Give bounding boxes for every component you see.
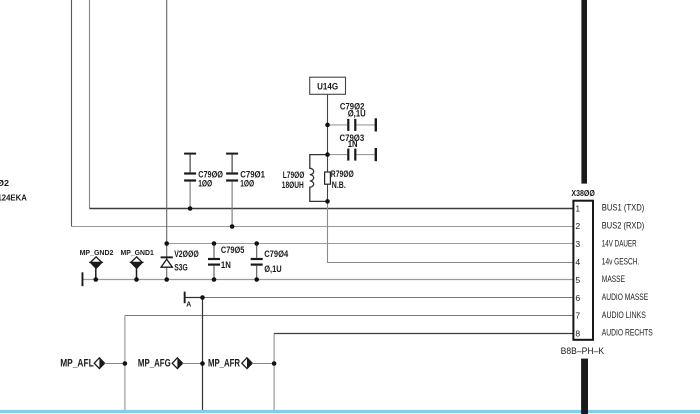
- svg-text:L79ØØ: L79ØØ: [283, 170, 305, 180]
- capacitor C7904 0,1U: [251, 244, 263, 280]
- net label BUS2 (RXD): [602, 221, 645, 231]
- svg-text:MP_GND1: MP_GND1: [121, 248, 155, 257]
- svg-text:BUS2 (RXD): BUS2 (RXD): [602, 221, 645, 231]
- svg-text:S3G: S3G: [174, 263, 188, 273]
- svg-text:Ø,1U: Ø,1U: [264, 264, 282, 274]
- wire AUDIO RECHTS vertical x=274: [273, 334, 275, 411]
- terminal node A: [184, 292, 203, 309]
- svg-text:MP_AFG: MP_AFG: [138, 358, 171, 370]
- svg-text:AUDIO LINKS: AUDIO LINKS: [602, 310, 646, 320]
- label C7902: [340, 102, 366, 119]
- svg-text:N.B.: N.B.: [332, 180, 346, 190]
- net label 14v GESCH.: [602, 257, 640, 267]
- net label AUDIO RECHTS: [602, 328, 653, 338]
- svg-text:3: 3: [575, 239, 580, 249]
- wire BUS1 horizontal to pin 1: [90, 208, 573, 210]
- label C7905: [221, 245, 245, 270]
- resistor R7900 N.B.: [325, 172, 331, 184]
- svg-text:14v GESCH.: 14v GESCH.: [602, 257, 640, 267]
- svg-text:MP_AFR: MP_AFR: [208, 358, 240, 370]
- junction dots: [94, 123, 330, 366]
- label C7901: [240, 169, 265, 188]
- wire R7900 bottom to node: [327, 184, 329, 201]
- svg-text:BUS1 (TXD): BUS1 (TXD): [602, 203, 645, 213]
- pin 2: [575, 221, 580, 231]
- svg-text:C79Ø5: C79Ø5: [221, 245, 245, 255]
- net label BUS1 (TXD): [602, 203, 645, 213]
- svg-text:124EKA: 124EKA: [0, 193, 27, 202]
- pin 3: [575, 239, 580, 249]
- svg-text:Ø,1U: Ø,1U: [348, 108, 366, 118]
- svg-text:Ø2: Ø2: [0, 179, 10, 188]
- bus bar thick top: [581, 0, 587, 184]
- cyan highlight line: [0, 410, 700, 413]
- net label AUDIO MASSE: [602, 292, 648, 302]
- label B8B-PH-K: [561, 346, 605, 357]
- svg-text:7: 7: [575, 311, 580, 321]
- capacitor C7901 100: [226, 153, 238, 227]
- svg-text:B8B–PH–K: B8B–PH–K: [561, 346, 605, 357]
- svg-text:1: 1: [575, 203, 580, 213]
- svg-text:R79ØØ: R79ØØ: [331, 169, 354, 179]
- terminal bar C7903: [375, 148, 377, 161]
- svg-text:1N: 1N: [348, 139, 358, 149]
- wire MASSE horizontal to pin 5: [82, 279, 572, 281]
- wire BUS2 horizontal to pin 2: [72, 226, 573, 228]
- wire C7902 branch horizontal: [328, 124, 375, 126]
- net label AUDIO LINKS: [602, 310, 646, 320]
- terminal bar C7902: [375, 118, 377, 131]
- pin 4: [575, 257, 580, 267]
- wire AUDIO MASSE horizontal to pin 6: [185, 297, 573, 299]
- svg-text:1ØØ: 1ØØ: [198, 178, 212, 188]
- wire AUDIO LINKS vertical x=125: [124, 316, 126, 411]
- label 124EKA clipped: [0, 193, 27, 202]
- measuring point MP_AFR: [208, 358, 274, 370]
- svg-text:14V DAUER: 14V DAUER: [602, 238, 637, 248]
- terminal MASSE left: [82, 272, 84, 286]
- pin 6: [575, 293, 580, 303]
- capacitor C7905 1N: [208, 244, 220, 280]
- svg-text:MASSE: MASSE: [602, 274, 625, 284]
- wire 14V DAUER horizontal to pin 3: [167, 243, 573, 245]
- pin 7: [575, 311, 580, 321]
- svg-text:A: A: [186, 302, 191, 309]
- wire 14v GESCH vertical then horizontal to pin 4: [328, 201, 573, 262]
- capacitor C7902 0,1U: [347, 119, 356, 131]
- wire U14G stem down x=327.5: [327, 94, 329, 172]
- capacitor C7903 1N: [347, 149, 356, 161]
- IC box U14G: [310, 77, 346, 94]
- wire vertical x=202.4 from node A to bottom: [202, 298, 204, 411]
- label C7900: [198, 169, 223, 188]
- svg-text:MP_AFL: MP_AFL: [60, 358, 94, 370]
- label 02 clipped: [0, 179, 10, 188]
- svg-text:X38ØØ: X38ØØ: [571, 188, 595, 198]
- net label MASSE: [602, 274, 625, 284]
- wire AUDIO RECHTS horizontal to pin 8: [274, 333, 572, 335]
- measuring point MP_GND1: [121, 248, 155, 280]
- svg-text:MP_GND2: MP_GND2: [80, 248, 114, 257]
- diode V2000 S3G: [161, 256, 173, 267]
- wire C7903 branch horizontal: [328, 154, 375, 156]
- label C7903: [340, 133, 365, 149]
- label L7900: [282, 170, 305, 190]
- capacitor C7900 100: [184, 153, 196, 209]
- wire vertical net BUS2 left: [71, 0, 73, 227]
- svg-text:6: 6: [575, 293, 580, 303]
- pin 5: [575, 275, 580, 285]
- pin 8: [575, 328, 580, 338]
- measuring point MP_GND2: [80, 248, 114, 280]
- wire vertical net BUS1 left: [89, 0, 91, 209]
- bus bar thick bottom: [581, 359, 588, 414]
- net label 14V DAUER: [602, 238, 637, 248]
- measuring point MP_AFL: [60, 358, 125, 370]
- label R7900: [331, 169, 354, 190]
- inductor L7900 180UH: [310, 155, 328, 202]
- svg-text:1ØØ: 1ØØ: [240, 178, 254, 188]
- wire vertical through V2000: [166, 0, 168, 280]
- svg-text:18ØUH: 18ØUH: [282, 180, 304, 190]
- wire AUDIO LINKS horizontal to pin 7: [125, 315, 573, 317]
- label V2000: [174, 249, 199, 273]
- svg-text:AUDIO MASSE: AUDIO MASSE: [602, 292, 648, 302]
- label C7904: [264, 249, 288, 274]
- svg-text:V2ØØØ: V2ØØØ: [174, 249, 199, 259]
- svg-text:4: 4: [575, 257, 580, 267]
- svg-text:1N: 1N: [221, 260, 231, 270]
- connector X3800 body: [573, 201, 593, 340]
- svg-text:U14G: U14G: [317, 81, 338, 91]
- svg-text:5: 5: [575, 275, 580, 285]
- svg-text:AUDIO RECHTS: AUDIO RECHTS: [602, 328, 653, 338]
- measuring point MP_AFG: [138, 358, 203, 370]
- svg-text:2: 2: [575, 221, 580, 231]
- svg-text:C79Ø4: C79Ø4: [264, 249, 288, 259]
- svg-text:8: 8: [575, 328, 580, 338]
- pin 1: [575, 203, 580, 213]
- label X3800: [571, 188, 595, 198]
